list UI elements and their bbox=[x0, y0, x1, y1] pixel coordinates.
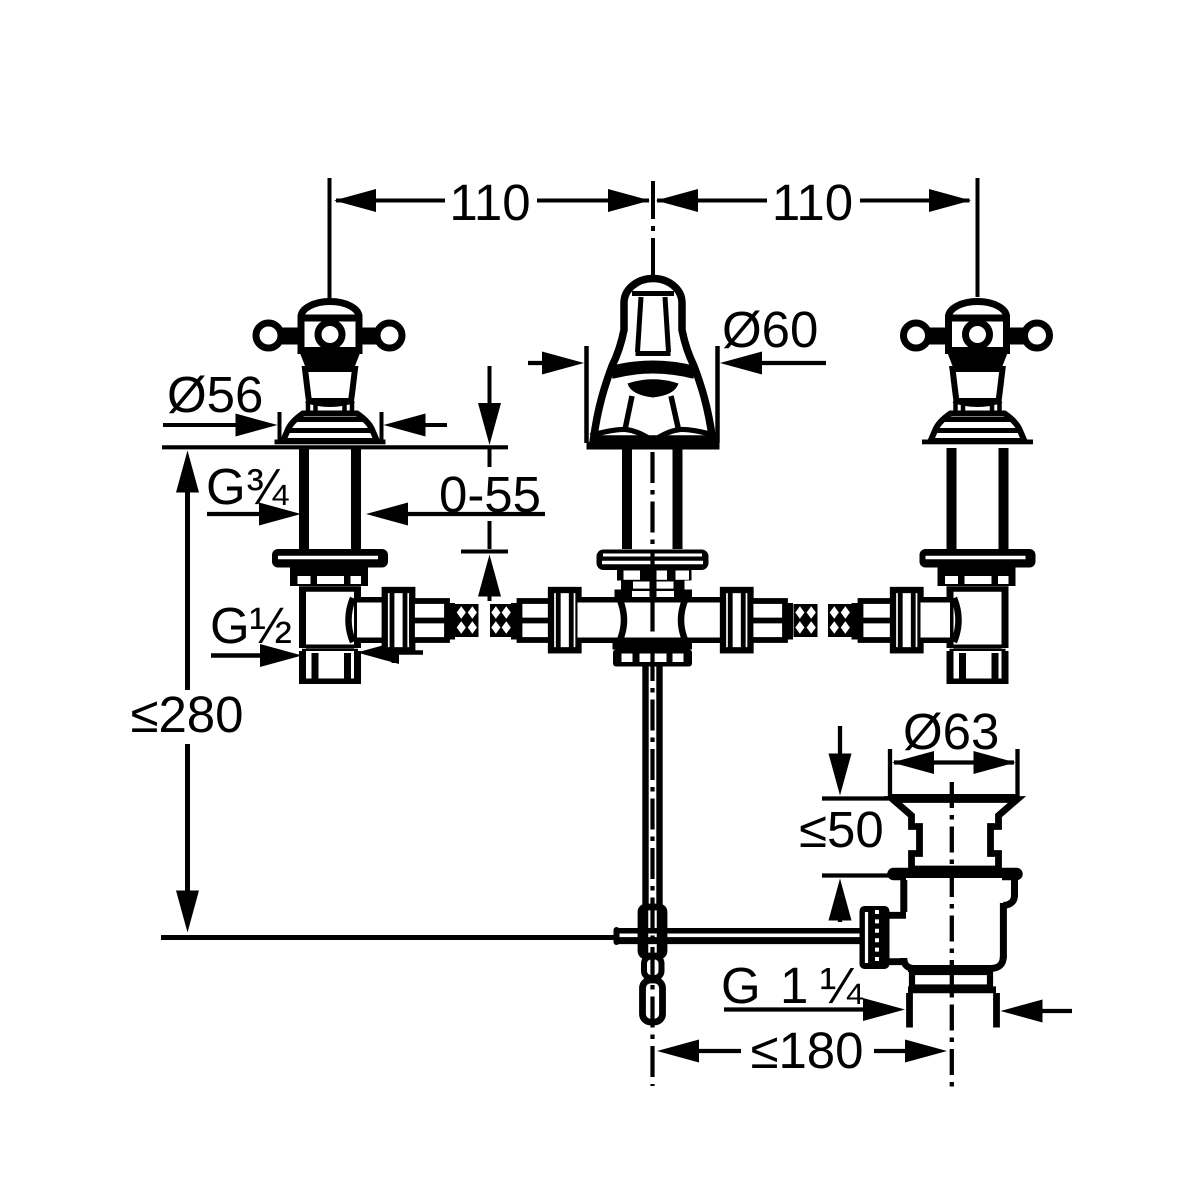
left valve handle cross arms bbox=[281, 328, 303, 345]
right valve body bbox=[954, 591, 1002, 645]
spout outline bbox=[594, 279, 713, 440]
svg-text:Ø60: Ø60 bbox=[722, 301, 818, 358]
right hose: union nut at valve bbox=[893, 590, 921, 650]
right valve handle dome bbox=[949, 302, 1007, 319]
dimension line 110 left bbox=[336, 199, 445, 203]
arrow G1/2 right with tick bbox=[357, 641, 399, 664]
right hose: braided section B bbox=[828, 604, 852, 637]
svg-text:≤50: ≤50 bbox=[799, 801, 884, 858]
right valve escutcheon bbox=[931, 414, 1025, 442]
vertical dimension line 0-55 bbox=[488, 366, 492, 405]
svg-text:110: 110 bbox=[449, 174, 530, 231]
drain tail step line bbox=[908, 986, 996, 993]
drain connector stub bbox=[889, 912, 907, 919]
spout base rim bbox=[587, 442, 720, 450]
arrow 0-55 horizontal bbox=[366, 503, 408, 526]
horizontal lever arm bbox=[616, 928, 860, 934]
right hose: valve port bbox=[921, 603, 951, 638]
left valve handle dome bbox=[301, 302, 359, 319]
drain centerline bbox=[950, 782, 954, 1087]
left valve escutcheon bbox=[283, 414, 377, 442]
svg-text:G: G bbox=[721, 957, 761, 1014]
dimension arrows diameter 60 bbox=[528, 361, 546, 365]
center flange plate bbox=[597, 550, 709, 571]
vertical dimension line max 280 bbox=[176, 451, 199, 493]
right valve handle neck band bbox=[947, 351, 1009, 370]
left valve body waist curve bbox=[349, 598, 354, 642]
right valve handle base collar bbox=[953, 402, 958, 416]
left hose: union nut at tee bbox=[551, 590, 579, 650]
drain top cap bbox=[893, 800, 1017, 870]
right valve handle front ball bbox=[966, 323, 990, 347]
svg-text:¼: ¼ bbox=[820, 957, 864, 1014]
spout outlet face arch line bbox=[632, 291, 674, 296]
pop-up rod link bbox=[644, 957, 662, 979]
left hose: end collar B bbox=[511, 603, 520, 640]
dimension line 110 right bbox=[657, 199, 767, 203]
center mounting ring row 1 bbox=[617, 570, 692, 581]
svg-text:≤180: ≤180 bbox=[750, 1022, 863, 1079]
left valve handle right ball bbox=[377, 323, 402, 348]
tee body right waist curve bbox=[681, 599, 686, 641]
dimension diameter 63 extension lines bbox=[888, 749, 892, 799]
drain tailpipe bbox=[906, 993, 913, 1028]
left valve handle skirt bbox=[305, 369, 355, 401]
spout right facet line bbox=[671, 396, 679, 430]
vertical dimension line max 50 bbox=[838, 726, 842, 756]
tee body bottom shoulder bbox=[613, 641, 693, 650]
left hose: union nut at valve bbox=[385, 590, 413, 650]
right hose: union nut at tee bbox=[723, 590, 751, 650]
left hose: braided section A bbox=[455, 604, 479, 637]
left hose: ferrule B bbox=[520, 601, 553, 640]
spout tip bottom edge bbox=[636, 351, 671, 356]
right valve mounting block bbox=[938, 568, 1016, 587]
right hose: braided section A bbox=[794, 604, 818, 637]
right hose: tee port bbox=[689, 603, 723, 638]
right valve handle left ball bbox=[904, 323, 929, 348]
pop-up rod tube bbox=[642, 666, 648, 907]
svg-text:G¾: G¾ bbox=[206, 458, 290, 515]
right hose: end collar B bbox=[852, 603, 861, 640]
spout collar band bbox=[611, 367, 695, 373]
pop-up rod centerline bbox=[650, 452, 654, 1086]
tee body bbox=[616, 603, 689, 638]
centerline above spout (dash-dot) bbox=[651, 181, 655, 278]
pop-up rod joint block bbox=[641, 907, 664, 956]
drain sealing flange bbox=[894, 868, 1017, 881]
bottom reference line bbox=[161, 935, 618, 940]
dimension arrows diameter 63 bbox=[894, 760, 1014, 764]
svg-text:G½: G½ bbox=[210, 597, 292, 654]
svg-text:110: 110 bbox=[772, 174, 853, 231]
left valve flange plate bbox=[272, 549, 388, 568]
left valve G1/2 nut bbox=[303, 651, 357, 684]
right valve body waist curve bbox=[954, 598, 959, 642]
extension line left valve centerline bbox=[328, 178, 332, 299]
left valve mounting block bbox=[290, 568, 368, 587]
arrow G3/4 bbox=[207, 512, 265, 516]
svg-text:≤280: ≤280 bbox=[130, 686, 243, 743]
right valve G1/2 nut bbox=[951, 651, 1005, 684]
left valve threaded shank bbox=[299, 448, 309, 551]
drain clevis with serration bbox=[860, 906, 890, 969]
right hose: ferrule bbox=[751, 601, 786, 640]
dimension arrows diameter 56 bbox=[163, 423, 238, 427]
spout left facet line bbox=[625, 396, 632, 430]
left valve body bbox=[306, 591, 354, 645]
left hose: ferrule bbox=[412, 601, 447, 640]
svg-text:Ø56: Ø56 bbox=[167, 366, 263, 423]
right valve handle right ball bbox=[1025, 323, 1050, 348]
spout dark ellipse band bbox=[628, 379, 679, 397]
left valve handle hub bbox=[301, 318, 359, 351]
left valve body bottom shoulder bbox=[306, 645, 354, 649]
svg-text:Ø63: Ø63 bbox=[903, 703, 999, 760]
left valve handle base collar bbox=[306, 402, 311, 416]
right valve flange plate bbox=[920, 549, 1036, 568]
left valve handle left ball bbox=[256, 323, 281, 348]
dimension diameter 60 extension lines bbox=[584, 346, 589, 443]
right valve handle cross arms bbox=[929, 328, 951, 345]
center mounting ring row 3 bbox=[615, 590, 693, 602]
left hose: valve port bbox=[357, 603, 386, 638]
right valve handle skirt bbox=[953, 369, 1003, 401]
drain lower body bbox=[906, 878, 1002, 968]
right valve body bottom shoulder bbox=[954, 645, 1002, 649]
left hose: tee port bbox=[578, 603, 617, 638]
tee body left waist curve bbox=[620, 599, 625, 641]
center mounting ring row 2 bbox=[621, 581, 685, 590]
tee bottom castellated nut bbox=[613, 650, 692, 667]
right valve threaded shank bbox=[947, 448, 957, 551]
arrow right of drain tail bbox=[1001, 1000, 1043, 1023]
extension line right valve centerline bbox=[976, 178, 980, 297]
left hose: end collar bbox=[447, 603, 456, 640]
pop-up rod end piece bbox=[643, 980, 663, 1022]
right valve handle hub bbox=[949, 318, 1007, 351]
right hose: end collar bbox=[785, 603, 794, 640]
spout outlet face sides bbox=[638, 297, 642, 352]
spout drapery fold line bbox=[591, 429, 716, 440]
left hose: braided section B bbox=[490, 604, 512, 637]
counter reference line under left valve bbox=[162, 445, 508, 449]
left valve handle neck band bbox=[299, 351, 361, 370]
svg-text:1: 1 bbox=[780, 957, 808, 1014]
right hose: ferrule B bbox=[861, 601, 894, 640]
arrow G1/2 left bbox=[211, 653, 266, 658]
spout shank bbox=[622, 450, 632, 550]
left valve handle front ball bbox=[318, 323, 342, 347]
arrow G 1 1/4 bbox=[724, 1007, 868, 1011]
drain tail upper box bbox=[912, 972, 990, 988]
dimension arrows max 180 bbox=[657, 1040, 699, 1063]
